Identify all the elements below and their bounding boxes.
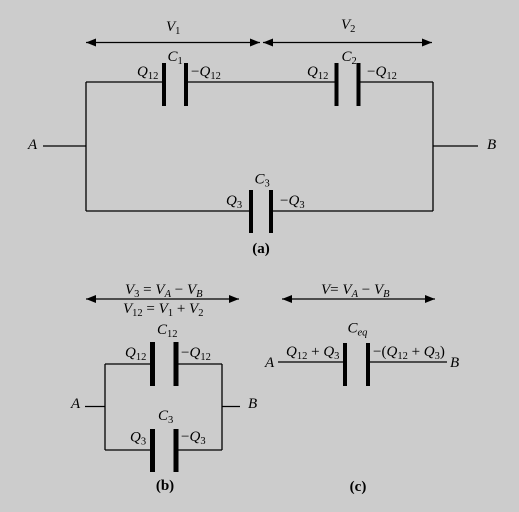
capacitor Ceq	[343, 343, 370, 386]
wire top-right segment (a)	[360, 81, 433, 83]
svg-text:B: B	[487, 137, 496, 153]
capacitor C3 (b)	[150, 429, 179, 472]
svg-text:A: A	[70, 396, 81, 412]
svg-text:B: B	[450, 355, 459, 371]
arrow V3/V12 span	[86, 295, 239, 303]
wire bottom-right segment (b)	[178, 449, 222, 451]
terminal B lead (a)	[433, 145, 478, 147]
wire top-right segment (b)	[178, 363, 222, 365]
wire bottom-left segment (a)	[86, 210, 249, 212]
wire right vertical (a)	[432, 82, 434, 211]
terminal B lead (b)	[222, 406, 240, 408]
svg-text:−(Q12 + Q3): −(Q12 + Q3)	[373, 344, 445, 362]
wire top-left segment (a)	[86, 81, 162, 83]
wire bottom-right segment (a)	[273, 210, 433, 212]
capacitor C2	[335, 63, 361, 106]
terminal A lead (a)	[43, 145, 86, 147]
wire bottom-left segment (b)	[105, 449, 150, 451]
wire right vertical (b)	[221, 364, 223, 450]
wire left vertical (b)	[104, 364, 106, 450]
capacitor C12	[150, 342, 179, 386]
svg-text:A: A	[27, 137, 38, 153]
svg-text:Q12 + Q3: Q12 + Q3	[286, 344, 339, 362]
arrow V2 span	[263, 39, 432, 47]
wire top-middle segment (a)	[188, 81, 335, 83]
wire right (c)	[370, 361, 447, 363]
arrow V span (c)	[282, 295, 435, 303]
arrow V1 span	[86, 39, 260, 47]
terminal A lead (b)	[85, 406, 105, 408]
capacitor C3	[249, 190, 273, 233]
capacitor C1	[162, 63, 188, 106]
svg-text:(a): (a)	[252, 241, 270, 257]
wire left vertical (a)	[85, 82, 87, 211]
svg-text:B: B	[248, 396, 257, 412]
wire left (c)	[278, 361, 343, 363]
wire top-left segment (b)	[105, 363, 150, 365]
svg-text:(c): (c)	[350, 479, 367, 495]
svg-text:(b): (b)	[156, 478, 174, 494]
svg-text:A: A	[264, 355, 275, 371]
